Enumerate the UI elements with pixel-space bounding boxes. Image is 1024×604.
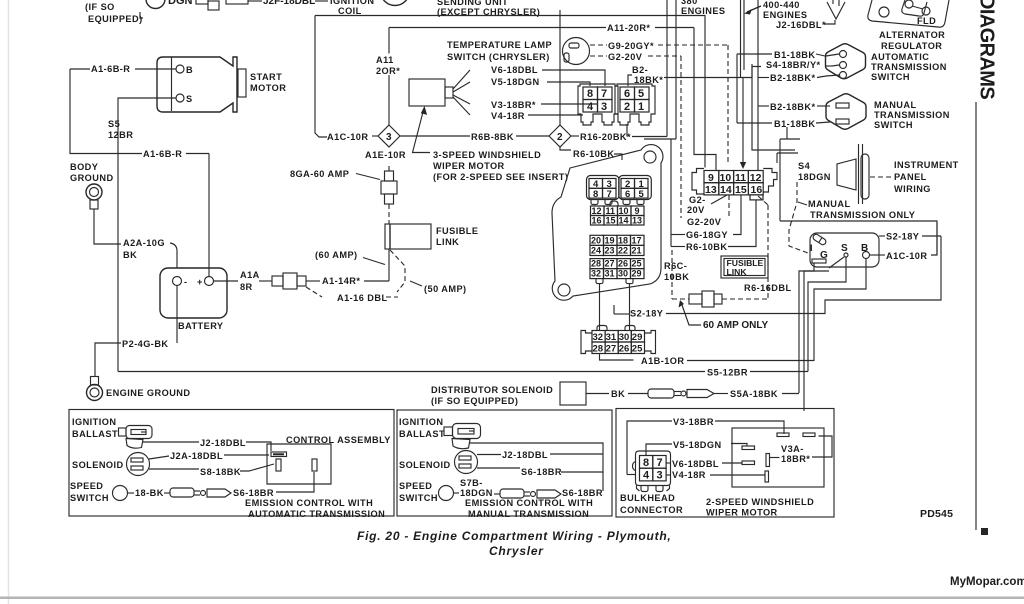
svg-text:G6-18GY: G6-18GY [686,230,728,240]
bulkhead connector grid [636,451,671,486]
svg-text:13: 13 [705,184,717,196]
svg-text:V4-18R: V4-18R [672,470,706,480]
svg-text:BODY: BODY [70,162,98,172]
svg-text:B2-: B2- [632,65,648,75]
svg-text:LINK: LINK [436,237,459,247]
svg-text:TRANSMISSION ONLY: TRANSMISSION ONLY [810,210,915,220]
svg-text:S: S [841,243,848,254]
svg-text:ENGINES: ENGINES [681,6,726,16]
svg-text:25: 25 [632,259,642,269]
ignition switch box outline [780,221,937,255]
wire from S terminal [118,98,176,372]
fusible link box [721,256,768,278]
bullet connector [648,389,674,398]
svg-text:J2-16DBL*: J2-16DBL* [776,20,826,30]
svg-text:18DGN: 18DGN [798,172,831,182]
svg-text:J2-18DBL: J2-18DBL [502,450,548,460]
svg-text:60 AMP ONLY: 60 AMP ONLY [703,320,769,331]
wire [94,209,121,244]
dashed A1-16 DBL path [390,250,405,292]
svg-text:18: 18 [618,236,628,246]
svg-text:7: 7 [607,189,612,200]
svg-text:SWITCH: SWITCH [70,493,109,503]
wires into switch area [780,138,800,140]
connector C2 6 5 / 2 1 [615,84,655,125]
svg-text:SWITCH (CHRYSLER): SWITCH (CHRYSLER) [447,52,550,62]
dashed G2 wire [590,55,607,57]
wire S8 [149,468,199,470]
svg-text:(50 AMP): (50 AMP) [424,284,467,294]
bulkhead wall lines [740,0,742,78]
svg-text:V4-18R: V4-18R [491,111,525,121]
svg-text:A1A: A1A [240,270,260,280]
dashed G2 vertical [680,56,682,218]
circuit breaker [388,166,390,171]
svg-text:31: 31 [605,269,615,279]
inline connector [272,276,283,286]
svg-text:G2-20V: G2-20V [608,52,643,62]
svg-text:(FOR 2-SPEED SEE INSERT): (FOR 2-SPEED SEE INSERT) [433,172,568,182]
svg-text:30: 30 [619,332,630,343]
svg-text:REGULATOR: REGULATOR [881,41,942,51]
svg-text:IGNITION: IGNITION [399,417,443,427]
svg-text:+: + [197,277,203,287]
svg-text:(60 AMP): (60 AMP) [315,250,358,260]
svg-text:S7B-: S7B- [460,478,483,488]
svg-text:R6-10BK: R6-10BK [686,242,727,252]
svg-text:18DGN: 18DGN [460,488,493,498]
svg-text:A1C-10R: A1C-10R [327,132,368,142]
svg-text:2OR*: 2OR* [376,66,400,76]
connector grid E 28 27 26 25 / 32 31 30 29 [590,259,644,284]
arrow to wiper motor [413,110,431,153]
cells 9-16 [704,171,719,183]
svg-text:LINK: LINK [727,267,748,277]
wire down [388,249,390,281]
wire [248,0,262,2]
svg-text:ALTERNATOR: ALTERNATOR [879,30,945,40]
svg-text:13: 13 [632,216,642,226]
svg-text:3: 3 [657,470,663,482]
wire B2 manual vertical [757,0,759,170]
svg-text:MANUAL: MANUAL [874,100,917,110]
ballast resistor [126,426,152,439]
wire B2/S4 horizontal [664,77,752,79]
svg-text:G2-: G2- [689,195,706,205]
svg-text:V6-18DBL: V6-18DBL [672,459,719,469]
connector grid F 32 31 30 29 / 28 27 26 25 [581,331,592,354]
svg-text:10: 10 [619,206,629,216]
svg-text:DISTRIBUTOR SOLENOID: DISTRIBUTOR SOLENOID [431,385,553,395]
wire battery plus right [214,280,239,282]
svg-text:Fig. 20 - Engine Compartment: Fig. 20 - Engine Compartment Wiring - Pl… [357,529,671,543]
label R6C-10BK [662,257,690,282]
wire down to battery + [208,154,210,277]
svg-text:27: 27 [606,344,617,355]
svg-text:DGN: DGN [168,0,193,7]
node 3 bulkhead diamond [378,125,400,147]
svg-text:TRANSMISSION: TRANSMISSION [871,62,947,72]
battery B1 [160,268,227,318]
svg-text:BK: BK [611,389,625,399]
svg-text:Chrysler: Chrysler [489,544,544,558]
svg-text:8: 8 [593,189,598,200]
svg-text:26: 26 [619,344,630,355]
wires [470,443,603,454]
svg-text:ENGINES: ENGINES [763,10,808,20]
svg-text:5: 5 [639,189,645,200]
2-speed wiper motor box [732,428,824,487]
wire S5-12BR [118,371,705,373]
svg-text:6: 6 [624,88,630,100]
svg-text:3-SPEED WINDSHIELD: 3-SPEED WINDSHIELD [433,150,541,160]
connector to regulator [827,2,845,19]
svg-text:23: 23 [605,246,615,256]
svg-text:S5A-18BK: S5A-18BK [730,389,778,399]
svg-text:16: 16 [751,184,763,196]
svg-text:4: 4 [587,101,594,113]
engine ground ring [91,377,99,386]
svg-text:19: 19 [605,236,615,246]
svg-text:B2-18BK*: B2-18BK* [770,73,815,83]
svg-text:R16-20BK*: R16-20BK* [580,132,631,142]
svg-text:14: 14 [720,184,732,196]
svg-text:WIPER MOTOR: WIPER MOTOR [706,508,778,518]
wire V5-18DGN [646,444,672,456]
svg-text:SOLENOID: SOLENOID [399,460,451,470]
svg-text:31: 31 [606,332,617,343]
ignition coil circle (cut) [381,0,410,6]
fusible link F1 [385,224,431,249]
svg-text:A1B-1OR: A1B-1OR [641,356,684,366]
svg-text:10BK: 10BK [664,272,689,282]
corner bracket [140,12,143,18]
control assembly box [267,444,331,484]
svg-text:12BR: 12BR [108,130,133,140]
svg-text:BULKHEAD: BULKHEAD [620,493,675,503]
svg-text:INSTRUMENT: INSTRUMENT [894,160,959,170]
insert box 3 [616,409,834,518]
svg-text:ENGINE GROUND: ENGINE GROUND [106,388,190,398]
svg-text:J2F-18DBL: J2F-18DBL [263,0,315,7]
wire box outline [315,16,705,168]
svg-text:S4-18BR/Y*: S4-18BR/Y* [766,60,821,70]
start motor U1 [157,57,237,112]
fan out wires [453,70,470,89]
connector grid D 20 19 18 17 / 24 23 22 21 [590,235,644,255]
wire battery minus down [176,286,178,343]
svg-text:I: I [810,243,813,253]
wire V4-18R [666,474,671,476]
wire V3-18BR [627,421,672,475]
svg-text:SWITCH: SWITCH [874,120,913,130]
svg-text:2: 2 [557,132,563,143]
wire J2A [149,456,169,459]
wire A11-20R* horizontal [389,27,606,29]
svg-text:AUTOMATIC TRANSMISSION: AUTOMATIC TRANSMISSION [248,509,385,519]
svg-text:17: 17 [632,236,642,246]
wire B1 vertical [736,54,738,123]
svg-text:BK: BK [123,250,137,260]
svg-text:B1-18BK: B1-18BK [774,119,815,129]
dashed G9 to pin 10 [727,45,729,165]
svg-text:-: - [184,277,188,287]
svg-text:R6C-: R6C- [664,261,687,271]
svg-text:(IF SO: (IF SO [85,2,115,12]
svg-text:24: 24 [591,246,601,256]
svg-text:22: 22 [618,246,628,256]
svg-text:20: 20 [591,236,601,246]
ballast resistor 2 [453,424,481,439]
svg-text:A1-6B-R: A1-6B-R [143,149,182,159]
svg-text:V5-18DGN: V5-18DGN [491,77,540,87]
bulkhead connector body [552,145,663,301]
wire A11 vertical [388,28,390,54]
svg-text:3: 3 [386,132,392,143]
svg-text:BALLAST: BALLAST [399,429,445,439]
svg-text:J2A-18DBL: J2A-18DBL [170,451,223,461]
connector C1 8 7 / 4 3 [578,84,618,125]
svg-text:2-SPEED WINDSHIELD: 2-SPEED WINDSHIELD [706,497,814,507]
svg-text:25: 25 [632,344,643,355]
svg-text:8: 8 [587,88,593,100]
svg-text:SENDING UNIT: SENDING UNIT [437,0,508,7]
stub grid2 to R16 wire [626,124,628,137]
svg-text:5: 5 [638,88,644,100]
wiper motor M1 [409,79,445,106]
wire to J2-18DBL [143,441,199,443]
svg-text:18-BK: 18-BK [135,488,164,498]
svg-text:7: 7 [601,88,607,100]
svg-text:14: 14 [619,216,629,226]
automatic transmission switch hexagon [826,44,866,79]
svg-text:A1-6B-R: A1-6B-R [91,64,130,74]
svg-text:20V: 20V [687,205,705,215]
svg-text:18BR*: 18BR* [781,454,810,464]
svg-text:SOLENOID: SOLENOID [72,460,124,470]
svg-text:A1E-10R: A1E-10R [365,150,406,160]
svg-text:A11: A11 [376,55,394,65]
svg-text:G2-20V: G2-20V [687,217,722,227]
svg-text:A1C-10R: A1C-10R [886,251,927,261]
wire A11 to pin 9 [694,28,716,171]
svg-text:CONNECTOR: CONNECTOR [620,505,683,515]
dashed 60amp link path [671,250,673,299]
svg-text:28: 28 [591,259,601,269]
svg-text:15: 15 [606,216,616,226]
svg-text:J2-18DBL: J2-18DBL [200,438,246,448]
right border line [975,102,977,530]
svg-text:EQUIPPED): EQUIPPED) [88,14,143,24]
svg-text:R6B-8BK: R6B-8BK [471,132,514,142]
svg-text:MOTOR: MOTOR [250,83,286,93]
svg-text:11: 11 [606,206,616,216]
svg-text:7: 7 [657,457,663,469]
svg-text:V3A-: V3A- [781,444,804,454]
svg-text:12: 12 [750,172,762,184]
svg-text:MyMopar.com: MyMopar.com [950,576,1024,588]
wire from sending unit down to node 2 [559,10,561,125]
svg-text:TEMPERATURE LAMP: TEMPERATURE LAMP [447,40,552,50]
temperature sending unit [563,38,590,65]
svg-text:A11-20R*: A11-20R* [607,23,650,33]
svg-text:A1-16 DBL: A1-16 DBL [337,293,388,303]
svg-text:S5: S5 [108,119,120,129]
svg-text:P2-4G-BK: P2-4G-BK [122,339,168,349]
svg-text:S2-18Y: S2-18Y [886,232,919,242]
svg-text:WIPER MOTOR: WIPER MOTOR [433,161,505,171]
dashed G9 wire [590,44,607,46]
svg-text:MANUAL: MANUAL [808,199,851,209]
ignition switch S1 [810,233,879,267]
svg-text:400-440: 400-440 [763,0,800,10]
svg-text:PD545: PD545 [920,508,953,520]
ground ring terminal [86,184,102,200]
svg-text:G9-20GY*: G9-20GY* [608,41,654,51]
svg-text:26: 26 [618,259,628,269]
inline connector [689,294,702,304]
svg-text:29: 29 [632,332,643,343]
svg-text:EMISSION CONTROL WITH: EMISSION CONTROL WITH [245,498,373,508]
svg-text:START: START [250,72,282,82]
svg-text:S6-18BR: S6-18BR [521,467,562,477]
svg-text:S6-18BR: S6-18BR [233,488,274,498]
svg-text:29: 29 [632,269,642,279]
svg-text:B: B [186,65,193,75]
bottom rule [0,597,1024,600]
insert box 1 [69,410,394,517]
svg-text:FUSIBLE: FUSIBLE [436,226,478,236]
instrument panel connector [861,154,869,199]
node 2 bulkhead diamond [549,125,571,147]
svg-text:V6-18DBL: V6-18DBL [491,65,538,75]
svg-text:10: 10 [720,172,732,184]
alternator regulator [868,0,949,27]
svg-text:3: 3 [601,101,607,113]
svg-text:32: 32 [591,269,601,279]
svg-text:SWITCH: SWITCH [871,72,910,82]
svg-text:S: S [186,94,193,104]
svg-text:IGNITION: IGNITION [72,417,116,427]
wire A1B-1OR [600,354,634,361]
svg-text:COIL: COIL [338,6,362,16]
svg-text:6: 6 [625,189,630,200]
svg-text:A1-14R*: A1-14R* [322,276,360,286]
svg-text:SPEED: SPEED [70,481,103,491]
svg-text:2: 2 [624,101,630,113]
manual transmission switch hexagon [826,94,866,130]
wire V6-18DBL [666,462,671,464]
svg-text:MANUAL TRANSMISSION: MANUAL TRANSMISSION [468,509,589,519]
svg-text:B2-18BK*: B2-18BK* [770,102,815,112]
connector grid B 2 1 / 6 5 [619,176,652,205]
insert box 2 [397,410,612,516]
svg-text:32: 32 [593,332,604,343]
svg-text:R6-10BK: R6-10BK [573,149,614,159]
svg-text:12: 12 [592,206,602,216]
svg-text:8: 8 [643,457,649,469]
svg-text:WIRING: WIRING [894,184,931,194]
page edge line [8,0,10,604]
wire S4 vertical [752,64,795,150]
svg-text:15: 15 [735,184,747,196]
stub wires [599,284,601,330]
svg-text:V5-18DGN: V5-18DGN [673,440,722,450]
wire A1-6B-R top [70,68,90,70]
svg-text:9: 9 [635,206,640,216]
connector grid C 12 11 10 9 / 16 15 14 13 [591,201,645,226]
svg-text:8R: 8R [240,282,253,292]
svg-text:SPEED: SPEED [399,481,432,491]
svg-text:28: 28 [593,344,604,355]
switch wire nest [808,257,846,372]
distributor circle (cut) [146,0,165,9]
svg-text:1: 1 [638,101,644,113]
wire down to pin 11 with arrow [742,78,744,163]
svg-text:FLD: FLD [917,16,936,26]
svg-text:BALLAST: BALLAST [72,429,118,439]
inline connector [196,0,208,4]
connector 9-16 housing [692,169,704,195]
svg-text:16: 16 [592,216,602,226]
wire S2-18Y [613,305,615,314]
svg-text:9: 9 [708,172,714,184]
svg-text:BATTERY: BATTERY [178,321,224,331]
svg-text:S4: S4 [798,161,811,171]
engine harness verticals [666,0,668,137]
svg-text:S5-12BR: S5-12BR [707,368,748,378]
svg-text:21: 21 [632,246,642,256]
svg-text:S8-18BK: S8-18BK [200,467,241,477]
svg-text:AUTOMATIC: AUTOMATIC [871,52,929,62]
connector grid A 4 3 / 8 7 [587,176,620,205]
svg-text:4: 4 [643,470,650,482]
svg-text:11: 11 [735,172,746,184]
svg-text:27: 27 [605,259,615,269]
svg-text:B1-18BK: B1-18BK [774,50,815,60]
svg-text:S6-18BR: S6-18BR [562,488,603,498]
svg-text:8GA-60 AMP: 8GA-60 AMP [290,169,349,179]
svg-text:30: 30 [618,269,628,279]
svg-text:V3-18BR*: V3-18BR* [491,100,536,110]
svg-text:V3-18BR: V3-18BR [673,417,714,427]
svg-text:A2A-10G: A2A-10G [123,238,165,248]
svg-text:EMISSION CONTROL WITH: EMISSION CONTROL WITH [465,498,593,508]
svg-text:TRANSMISSION: TRANSMISSION [874,110,950,120]
svg-text:S2-18Y: S2-18Y [630,309,663,319]
wire left loop [70,69,142,154]
svg-text:GROUND: GROUND [70,173,114,183]
svg-text:DIAGRAMS: DIAGRAMS [976,0,998,99]
svg-text:(IF SO EQUIPPED): (IF SO EQUIPPED) [431,396,518,406]
svg-text:PANEL: PANEL [894,172,927,182]
svg-text:SWITCH: SWITCH [399,493,438,503]
